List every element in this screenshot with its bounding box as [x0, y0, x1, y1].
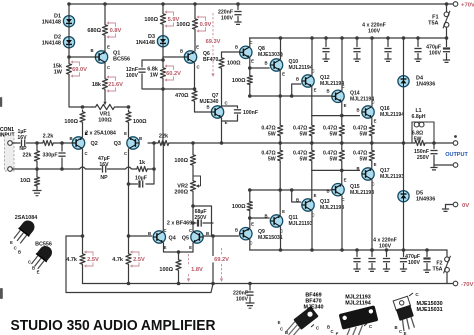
junction node FB — [152, 167, 156, 171]
label 6.8k 1W — [147, 67, 159, 79]
wire 470uF bottom bottom lead — [426, 264, 428, 271]
svg-text:B: B — [264, 214, 267, 219]
capacitor 220nF at 326 top — [322, 49, 329, 52]
terminal input ground — [8, 167, 13, 172]
label 680R — [87, 28, 101, 34]
svg-text:10µF: 10µF — [135, 176, 147, 182]
input shield hatch — [5, 136, 15, 172]
wire emitter node to 100R — [178, 252, 180, 258]
voltage arrow 1.8V — [187, 254, 207, 282]
junction Q14 collector rail — [340, 36, 344, 40]
package TO-264 MJL21193 MJL21194 — [338, 305, 381, 335]
pin C of Q10 — [280, 53, 283, 58]
wire 12nF branch — [142, 60, 163, 67]
wire node D down to output rail — [162, 89, 164, 143]
wire hop to 1k — [132, 168, 137, 170]
label Q11 MJL21193 — [289, 215, 313, 227]
svg-text:100V: 100V — [126, 73, 139, 79]
wire Q5 emitter — [192, 243, 194, 252]
wire 220nF 357 top lead — [356, 38, 358, 47]
label VR2 200R — [174, 184, 188, 196]
pin B of Q1 — [90, 48, 93, 53]
svg-text:MJE15031: MJE15031 — [258, 235, 283, 241]
pin E of Q3 — [124, 131, 127, 136]
svg-text:2.5V: 2.5V — [133, 257, 145, 263]
wire D2 cathode to node B — [68, 48, 70, 57]
wire 220nF 326 top lead — [325, 38, 327, 47]
pin E of Q6 — [196, 45, 199, 50]
wire Q14 emitter down — [341, 102, 343, 116]
wire node C to Q6 base h — [163, 57, 185, 60]
wire Q4 base node down to 4.7k — [128, 236, 130, 252]
voltage 21.6V at 18k — [106, 75, 123, 92]
wire hop over Q2 collector — [80, 167, 86, 169]
svg-text:E: E — [314, 193, 317, 198]
junction Q6 collector node — [193, 87, 197, 91]
wire 100R to Q8 base — [222, 52, 239, 56]
svg-text:E: E — [374, 119, 377, 124]
pin B of Q5 — [206, 231, 209, 236]
chassis ground output — [430, 168, 437, 170]
svg-text:E: E — [336, 332, 339, 335]
junction Q15 collector rail — [340, 248, 344, 252]
svg-text:C: C — [124, 151, 127, 156]
transistor Q14 MJL21194 npn — [332, 90, 344, 102]
svg-text:E: E — [189, 245, 192, 250]
svg-text:470Ω: 470Ω — [175, 93, 189, 99]
junction cap 357 on -rail — [355, 248, 359, 252]
label Q10 MJL21194 — [289, 59, 313, 71]
resistor 0.47R 5W lower 1 — [278, 149, 283, 162]
wire 100R to layer1 — [249, 85, 251, 97]
capacitor 1uF 16V NP input — [22, 139, 25, 146]
wire node E2 down to 4.7k — [82, 236, 84, 252]
svg-text:C: C — [84, 151, 87, 156]
ground mini below 220nF 372 bottom — [368, 269, 375, 271]
pin C of Q1 — [107, 65, 110, 70]
wire 220nF 357 bottom lead — [356, 54, 358, 60]
pin B of Q17 — [356, 166, 359, 171]
resistor 1k — [136, 166, 148, 171]
transistor Q2 2SA1084 pnp — [72, 137, 84, 149]
wire layer2b line — [312, 169, 360, 171]
wire 220nF 388 bottom lead — [387, 54, 389, 60]
resistor 0.47R 5W upper 2 — [309, 124, 314, 137]
pin E of TO-264 — [336, 332, 339, 335]
capacitor 470uF 100V bottom — [423, 259, 430, 262]
junction VR1 rail right — [127, 105, 131, 109]
pin E of 2SA1084 package — [10, 240, 13, 245]
label Q16 MJL21194 — [380, 106, 404, 118]
label 100R bias spreader — [174, 158, 188, 164]
svg-text:1N4936: 1N4936 — [416, 81, 435, 87]
trimpot VR2 200R — [190, 179, 195, 193]
wire 470uF top lead — [446, 38, 448, 47]
svg-text:5W: 5W — [330, 156, 338, 162]
svg-text:100V: 100V — [236, 296, 249, 302]
wire 220nF 386.5 top lead bottom bank — [386, 250, 388, 257]
pin C of Q15 — [341, 197, 344, 202]
svg-text:18k: 18k — [92, 82, 102, 88]
label 100R Q2 emitter — [64, 119, 78, 125]
capacitor 220nF at 388 top — [384, 49, 391, 52]
label 4.7k left — [66, 257, 78, 263]
wire node C to 6.8k — [162, 60, 164, 66]
transistor Q1 BC556 pnp — [95, 51, 107, 63]
wire 220nF 357 top lead bottom bank — [356, 250, 358, 257]
svg-text:100Ω: 100Ω — [98, 117, 112, 123]
label 0.47R 5W upper 4 — [353, 126, 367, 138]
svg-text:B: B — [326, 89, 329, 94]
svg-text:T5A: T5A — [432, 266, 442, 272]
label Q2 — [91, 141, 98, 147]
svg-text:C: C — [107, 65, 110, 70]
svg-text:16V: 16V — [99, 162, 109, 168]
wire 330pF bottom — [61, 158, 63, 169]
svg-text:BC556: BC556 — [35, 241, 52, 247]
label 0.47R 5W lower 3 — [323, 151, 337, 163]
svg-text:22k: 22k — [159, 134, 169, 140]
wire 1uF to 2.2k — [26, 142, 41, 144]
svg-text:Q5: Q5 — [182, 235, 189, 241]
resistor 100R bias spreader — [190, 153, 195, 167]
wire 220nF 326 bottom lead — [325, 54, 327, 60]
capacitor 220nF 100V top-rail — [234, 12, 241, 15]
wire VR2 column top — [192, 143, 194, 153]
label -70V — [461, 282, 474, 288]
voltage 69.0V at 15k — [70, 60, 87, 77]
transistor Q3 2SA1084 pnp — [127, 137, 139, 149]
wire Q16 emitter down — [371, 118, 373, 125]
junction top rail node A — [67, 2, 71, 6]
junction 150nF tap — [432, 141, 436, 145]
label D1 1N4148 — [42, 14, 61, 26]
wire Q7 collector up to 100R — [221, 70, 223, 106]
wire node FB down to 10uF — [146, 169, 154, 184]
pin E of Q14 — [344, 103, 347, 108]
svg-text:C: C — [280, 327, 283, 332]
wire Q5 base to Q9 base — [204, 235, 239, 237]
label NP input cap — [19, 146, 27, 152]
junction Q17 collector rail — [370, 248, 374, 252]
ground mini below 220nF 388 — [384, 59, 391, 61]
pin E of Q15 — [344, 178, 347, 183]
capacitor 220nF at 357 top — [353, 49, 360, 52]
transistor Q11 MJL21193 pnp — [270, 215, 282, 227]
scan artifact left edge upper — [0, 97, 2, 107]
wire 220nF 388 top lead — [387, 38, 389, 47]
wire 1k to node FB — [148, 168, 154, 170]
wire 100R driver bottom leads — [249, 211, 251, 219]
capacitor 220nF at 357 bottom — [353, 259, 360, 262]
wire 220nF 386.5 bottom lead bottom bank — [386, 264, 388, 270]
wire ground rail to 47uF — [86, 168, 102, 170]
wire 0.47R lower 3 top lead — [341, 143, 343, 149]
pin C of Q16 — [371, 100, 374, 105]
label 100R Q8 base — [227, 61, 241, 67]
wire output return line — [434, 164, 453, 166]
pin E of Q10 — [282, 72, 285, 77]
label 47uF 16V — [98, 156, 110, 168]
svg-text:1W: 1W — [54, 69, 63, 75]
svg-text:2.2k: 2.2k — [43, 134, 55, 140]
junction node C — [161, 58, 165, 62]
label Q7 MJE340 — [200, 93, 219, 105]
capacitor 100nF — [234, 110, 241, 113]
label BF469 BF470 MJE340 — [303, 293, 323, 311]
svg-text:E: E — [278, 320, 281, 325]
svg-text:+70V: +70V — [461, 2, 474, 8]
wire Q17 collector to -rail — [371, 180, 373, 250]
pin B of Q11 — [264, 214, 267, 219]
pin E of Q17 — [374, 162, 377, 167]
svg-text:C: C — [330, 329, 333, 334]
pin C of Q6 — [196, 65, 199, 70]
transistor Q6 BF470 pnp — [184, 51, 196, 63]
wire 100R driver top leads — [249, 68, 251, 76]
svg-text:E: E — [37, 270, 40, 275]
wire 4.7k left to -70V rail — [82, 266, 84, 284]
resistor 100R Q8 base — [219, 56, 224, 70]
label Q14 MJL21194 — [350, 91, 374, 103]
ground mini below 470uF top — [443, 60, 450, 62]
junction VR1 rail left — [81, 105, 85, 109]
wire fuse F2 top lead — [446, 250, 448, 257]
pin C of Q11 — [280, 229, 283, 234]
wire 0.47R lower 1 bottom lead — [279, 162, 281, 190]
resistor 680R — [102, 23, 107, 37]
package TO-220 MJE15030 MJE15031 — [393, 296, 417, 331]
pin C of Q8 — [249, 40, 252, 45]
capacitor 150nF 250V — [430, 151, 437, 154]
wire Q10 emitter down — [279, 71, 281, 97]
svg-text:69.3V: 69.3V — [206, 39, 221, 45]
label NP 47uF — [100, 175, 108, 181]
label CON1 INPUT — [0, 127, 15, 139]
junction 330pF on ground rail — [60, 167, 64, 171]
junction output rail VR2 column — [191, 141, 195, 145]
svg-text:MJL21193: MJL21193 — [350, 190, 374, 196]
wire 18k to VR1 wiper — [104, 91, 106, 100]
wire 0.47R upper 3 bottom lead — [341, 137, 343, 143]
svg-text:1N4936: 1N4936 — [416, 196, 435, 202]
svg-text:100V: 100V — [429, 50, 442, 56]
junction cap 418 on +rail — [416, 36, 420, 40]
resistor 100R driver top — [247, 76, 252, 85]
svg-text:1N4148: 1N4148 — [136, 40, 155, 46]
junction Q10 collector rail — [279, 36, 283, 40]
wire D4 bottom lead — [403, 87, 405, 143]
svg-text:B: B — [326, 189, 329, 194]
ground mini below 220nF 418 — [414, 59, 421, 61]
resistor 100R bias b — [192, 17, 197, 31]
wiper of VR2 — [193, 176, 201, 188]
pin C of TO-264 — [330, 329, 333, 334]
wire VR1 right to 100R right — [118, 106, 129, 108]
package TO-126 BF469 BF470 MJE340 — [283, 306, 319, 335]
junction Q14 emitter layer2 — [340, 114, 344, 118]
label Q12 MJL21194 — [320, 75, 344, 87]
wire Q11 collector to -rail — [280, 227, 282, 250]
svg-text:E: E — [196, 45, 199, 50]
ground below 10R — [33, 191, 42, 196]
svg-text:100V: 100V — [368, 28, 381, 34]
svg-text:B: B — [90, 48, 93, 53]
wire 0.47R lower 2 bottom lead — [311, 162, 313, 170]
junction layer1b left — [248, 188, 252, 192]
resistor 22k feedback — [157, 140, 170, 145]
wire output rail to terminal — [425, 142, 453, 144]
pin E of BC556 package — [37, 270, 40, 275]
junction top rail 220nF — [236, 2, 240, 6]
scan artifact left edge lower — [0, 288, 3, 299]
label 100R Q3 emitter — [133, 119, 147, 125]
pin C of Q9 — [249, 241, 252, 246]
svg-text:5W: 5W — [360, 156, 368, 162]
pin B of Q6 — [180, 49, 183, 54]
label 0.47R 5W lower 2 — [293, 151, 307, 163]
wire D5 top lead — [403, 143, 405, 191]
svg-text:100Ω: 100Ω — [176, 22, 190, 28]
wire 220nF 418 top lead — [417, 38, 419, 47]
wire 0V lead — [446, 204, 454, 206]
wire 470uF bottom top lead — [426, 250, 428, 257]
label 10uF — [135, 176, 147, 182]
ground at 0V terminal — [442, 209, 449, 211]
wire Q16 collector to +rail — [371, 38, 373, 106]
junction node F cap branch — [191, 221, 195, 225]
pin B of TO-220 — [394, 325, 397, 330]
wire node F right — [193, 206, 212, 236]
wire 0.47R upper 1 bottom lead — [279, 137, 281, 143]
label 220nF 100V top-rail — [218, 10, 234, 22]
capacitor 220nF 100V main — [246, 292, 253, 295]
svg-text:MJE15031: MJE15031 — [417, 307, 443, 313]
wire 0.47R upper 4 top lead — [371, 123, 373, 125]
wire 220nF 372 bottom lead bottom bank — [371, 264, 373, 270]
svg-text:OUTPUT: OUTPUT — [445, 152, 468, 158]
junction 0.47R upper 4 output rail — [370, 141, 374, 145]
svg-text:E: E — [251, 222, 254, 227]
junction emitters Q4 Q5 — [177, 250, 181, 254]
pin E of Q12 — [314, 88, 317, 93]
wire 150nF top lead — [433, 143, 435, 149]
pin B of Q15 — [326, 189, 329, 194]
terminal -70V — [453, 281, 458, 286]
wire fuse F1 top lead — [446, 4, 448, 12]
ground mini below 220nF 357 — [353, 59, 360, 61]
svg-text:B: B — [285, 330, 288, 335]
junction cap 372 on -rail — [370, 248, 374, 252]
resistor 100R driver bottom — [247, 202, 252, 211]
junction Q9 emitter node — [248, 216, 252, 220]
svg-text:B: B — [235, 45, 238, 50]
transistor Q5 BF469 npn — [191, 231, 203, 243]
svg-text:BF470: BF470 — [203, 57, 218, 63]
wire output rail — [170, 142, 415, 144]
label F2 T5A — [432, 261, 442, 273]
label Q1 BC556 — [113, 51, 130, 63]
pin C of Q7 — [224, 101, 227, 106]
junction Q2 collector node E2 — [81, 234, 85, 238]
wire input ground rail — [12, 168, 79, 170]
label MJE15030 MJE15031 — [417, 301, 443, 313]
svg-text:100Ω: 100Ω — [64, 119, 78, 125]
junction output rail FB node — [152, 141, 156, 145]
transistor Q13 MJL21193 pnp — [302, 199, 314, 211]
svg-text:MJL21194: MJL21194 — [345, 300, 370, 306]
ground mini below 220nF 386.5 bottom — [383, 269, 390, 271]
svg-text:100Ω: 100Ω — [227, 61, 241, 67]
label 100R Q4Q5 — [159, 267, 173, 273]
capacitor 470uF 100V top — [443, 49, 450, 52]
label VR1 100R — [98, 112, 112, 124]
wire Q6 collector link to node D — [163, 88, 195, 90]
label 2 x BF469 — [167, 221, 192, 227]
wire +70V top rail — [69, 3, 447, 5]
svg-text:MJL21193: MJL21193 — [320, 205, 344, 211]
resistor 0.47R 5W lower 2 — [309, 149, 314, 162]
junction Q8 emitter node — [248, 66, 252, 70]
label 1uF 16V — [17, 129, 27, 141]
wire VR2 to node F — [192, 193, 194, 206]
svg-text:100Ω: 100Ω — [174, 158, 188, 164]
pin B of BC556 package — [32, 266, 35, 271]
svg-text:C: C — [28, 260, 31, 265]
package TO-92 2SA1084 — [12, 215, 38, 245]
label 0.47R 5W lower 1 — [261, 151, 275, 163]
wiper arrow of VR1 — [103, 100, 106, 105]
transistor Q16 MJL21194 npn — [362, 106, 374, 118]
label 330pF — [43, 153, 58, 159]
wire node C to Q6 base — [162, 56, 164, 58]
wire 100nF loop top — [222, 106, 238, 108]
svg-text:5W: 5W — [300, 156, 308, 162]
diode D4 1N4936 — [398, 76, 409, 87]
pin B of 2SA1084 package — [18, 250, 21, 255]
capacitor 68uF 250V — [198, 219, 201, 226]
junction cap 357 on +rail — [355, 36, 359, 40]
transistor Q4 BF469 npn — [153, 231, 165, 243]
svg-text:E: E — [85, 131, 88, 136]
label Q3 — [114, 141, 121, 147]
svg-text:E: E — [374, 162, 377, 167]
transistor Q9 MJE15031 pnp — [240, 228, 252, 240]
resistor 6.8R 5W — [415, 140, 425, 145]
pin B of Q4 — [148, 231, 151, 236]
wire 680R to Q1 emitter — [104, 37, 106, 51]
svg-text:MJE340: MJE340 — [303, 304, 323, 310]
label Q6 BF470 — [203, 51, 218, 63]
wire 100R Q4Q5 to -70V rail — [178, 272, 180, 284]
svg-text:0V: 0V — [462, 203, 469, 209]
svg-text:1N4148: 1N4148 — [42, 19, 61, 25]
label 4 x 220nF 100V bottom — [373, 238, 397, 250]
junction top rail 100R-a — [161, 2, 165, 6]
junction 470uF top on +rail — [445, 36, 449, 40]
resistor 0.47R 5W upper 1 — [278, 124, 283, 137]
ground mini below 470uF bottom — [423, 270, 430, 272]
wire 0.47R lower 3 bottom lead — [341, 162, 343, 170]
label 2 x 2SA1084 — [85, 131, 116, 137]
wire D5 bottom lead — [403, 202, 405, 250]
svg-text:B: B — [264, 61, 267, 66]
svg-text:100V: 100V — [221, 15, 234, 21]
junction Q12 base layer1 — [290, 94, 294, 98]
wire +70V collector rail — [250, 37, 447, 39]
label 10R — [20, 178, 31, 184]
wire node G down to -70V rail — [212, 236, 214, 284]
